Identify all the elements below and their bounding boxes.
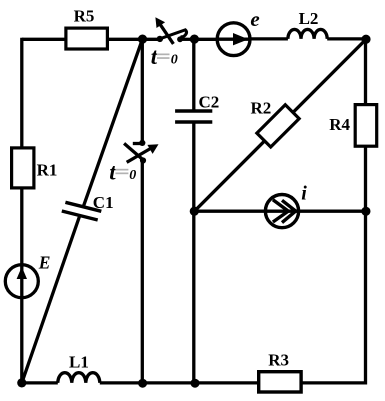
node T3: [361, 35, 370, 44]
wire SW1 to node T2: [180, 38, 194, 41]
svg-text:0: 0: [129, 168, 136, 183]
wire B3 to R3: [195, 381, 259, 384]
wire R3 to bottom-right corner: [301, 211, 366, 383]
source e circle: [217, 23, 250, 56]
wire T3 down to R4: [364, 39, 367, 105]
wire E to bottom-left: [20, 298, 23, 384]
svg-text:R5: R5: [74, 7, 95, 26]
wire T2 down to C2: [192, 39, 195, 111]
switch SW1 left contact: [157, 36, 163, 42]
source E arrow: [17, 266, 27, 298]
source i chevron 1: [273, 200, 288, 222]
label t=0 for SW1: [151, 44, 178, 69]
capacitor C1: [62, 202, 102, 220]
source i wire through: [266, 210, 299, 213]
capacitor C2: [175, 111, 212, 122]
switch SW1 blade: [160, 30, 187, 39]
svg-text:C2: C2: [199, 92, 220, 111]
resistor R3: [259, 372, 301, 392]
svg-text:0: 0: [171, 52, 178, 67]
resistor R2: [257, 105, 299, 147]
inductor L2: [288, 29, 327, 38]
svg-text:R4: R4: [329, 115, 350, 134]
svg-text:L2: L2: [299, 9, 319, 28]
source i chevron 2: [282, 200, 296, 222]
node M1: [190, 207, 199, 216]
svg-text:L1: L1: [69, 353, 89, 372]
wire SW2 to node B2: [141, 161, 144, 383]
node B1: [17, 378, 26, 387]
resistor R5: [66, 28, 108, 49]
switch SW2 top contact: [139, 140, 145, 146]
node M2: [361, 207, 370, 216]
switch SW2 blade: [124, 143, 144, 160]
wire top-left horizontal: [22, 38, 66, 41]
wire M1 to source i: [194, 210, 266, 213]
switch SW2 contact stub: [133, 142, 143, 145]
wire left vertical upper: [20, 38, 23, 148]
main diagonal upper segment C1 to T1: [83, 39, 142, 207]
wire R5 to node T1: [107, 38, 142, 41]
diagonal T3 to M1: [194, 39, 366, 211]
svg-text:e: e: [250, 7, 259, 31]
source e arrow: [218, 33, 250, 45]
wire bottom-left to L1: [22, 381, 58, 384]
wire C2 to node M1: [192, 122, 195, 211]
wire T1 to switch SW1 left contact: [143, 38, 161, 41]
switch SW1 arrow: [155, 17, 173, 44]
svg-text:R1: R1: [37, 160, 58, 179]
switch SW2 bottom contact: [140, 157, 146, 163]
svg-text:R2: R2: [251, 98, 272, 117]
wire B2 to B3: [142, 381, 195, 384]
wire T1 down to switch SW2: [141, 39, 144, 143]
wire L2 to node T3: [327, 37, 366, 40]
wire R4 to node M2: [364, 146, 367, 211]
svg-text:R3: R3: [268, 351, 289, 370]
svg-text:t: t: [151, 44, 158, 69]
switch SW2 arrow: [127, 144, 159, 162]
source E circle: [5, 265, 38, 298]
resistor R1: [12, 148, 34, 188]
wire i to M2: [299, 210, 366, 213]
wire M1 down to B3: [192, 211, 195, 383]
source i circle: [265, 195, 298, 228]
node B2: [138, 379, 147, 388]
main diagonal lower segment B1 to C1: [22, 216, 80, 383]
svg-text:t: t: [109, 160, 116, 185]
node T2: [190, 35, 199, 44]
wire T2 to source e: [194, 38, 217, 41]
svg-text:C1: C1: [93, 193, 114, 212]
wire R1 to E source: [20, 188, 23, 265]
wire L1 to node B2: [100, 381, 143, 384]
svg-text:E: E: [38, 253, 51, 273]
resistor R4: [355, 105, 377, 147]
inductor L1: [58, 373, 100, 383]
wire e to L2: [250, 37, 288, 40]
node B3: [191, 379, 200, 388]
svg-text:i: i: [301, 182, 307, 204]
node T1: [138, 35, 147, 44]
label t=0 for SW2: [109, 160, 136, 185]
switch SW1 right contact: [177, 36, 183, 42]
